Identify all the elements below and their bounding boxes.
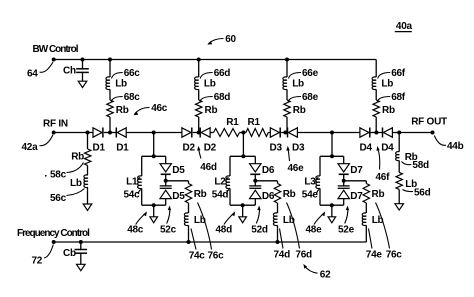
node freq tap 74d — [276, 240, 280, 244]
text R1 first — [226, 117, 239, 128]
node D5 midpoint — [164, 179, 168, 183]
inductor L1 — [138, 176, 142, 189]
svg-text:54d: 54d — [212, 190, 229, 201]
wire D6 mid to Rb — [255, 180, 277, 182]
label 54d — [212, 190, 229, 201]
ground below Ch — [78, 81, 87, 87]
label 72 — [32, 245, 54, 267]
node freq tap 74c — [187, 240, 191, 244]
text Lb (66c) — [115, 78, 127, 89]
wire top rail L2 — [230, 155, 255, 157]
svg-text:62: 62 — [320, 269, 331, 280]
svg-text:Rb: Rb — [372, 189, 385, 200]
label 48c with arrow — [127, 211, 147, 235]
wire term-right middle — [398, 161, 400, 173]
inductor Lb (56c) — [84, 175, 88, 188]
svg-text:Lb: Lb — [115, 78, 127, 89]
resistor Rb (68f) — [373, 100, 379, 117]
node freq line start — [52, 240, 56, 244]
label 66e — [289, 68, 319, 79]
node RF IN — [52, 131, 56, 135]
node D4 center — [374, 131, 378, 135]
wire D3 center — [281, 132, 287, 134]
label 56c — [50, 189, 85, 204]
label 40a — [395, 21, 413, 32]
node D2 center — [197, 131, 201, 135]
svg-text:Lb: Lb — [381, 78, 393, 89]
wire feed L3 — [331, 133, 333, 157]
wire D5 mid upper — [165, 174, 167, 186]
wire 74c lower — [188, 225, 190, 242]
diode D4 left — [360, 128, 370, 138]
svg-text:Rb: Rb — [283, 189, 296, 200]
wire 74e lower — [365, 225, 367, 242]
inductor Lb (66c) — [106, 77, 110, 90]
svg-text:D2: D2 — [204, 143, 217, 154]
svg-text:Rb: Rb — [71, 152, 84, 163]
svg-text:40a: 40a — [396, 21, 413, 32]
svg-text:L3: L3 — [304, 177, 316, 188]
label 60 with arrow — [207, 34, 236, 45]
resistor Rb (58c) — [85, 149, 91, 166]
svg-text:Cb: Cb — [63, 248, 76, 259]
text D7 upper — [350, 165, 363, 176]
svg-text:60: 60 — [225, 34, 236, 45]
wire branch 66d middle — [198, 89, 200, 100]
svg-text:Rb: Rb — [382, 105, 395, 116]
label 54c — [124, 190, 141, 201]
svg-text:74e: 74e — [366, 249, 383, 260]
capacitor Ch — [76, 69, 89, 73]
label 76c — [198, 203, 225, 262]
svg-text:76d: 76d — [295, 249, 312, 260]
resistor Rb (68e) — [284, 100, 290, 117]
wire D7 mid to Rb — [344, 180, 367, 182]
wire branch 66f middle — [375, 89, 377, 100]
inductor Lb (66d) — [195, 77, 199, 90]
label 58d — [402, 160, 430, 171]
svg-text:BW Control: BW Control — [33, 44, 79, 55]
svg-text:52d: 52d — [251, 225, 268, 236]
node RF termination left — [86, 131, 90, 135]
svg-text:58d: 58d — [412, 160, 429, 171]
diode D3 right — [288, 128, 298, 138]
svg-text:RF IN: RF IN — [43, 119, 68, 130]
svg-text:R1: R1 — [226, 117, 239, 128]
wire term-right upper — [398, 133, 400, 152]
svg-text:66e: 66e — [302, 68, 319, 79]
text D6 upper — [262, 165, 275, 176]
label 76d — [287, 203, 313, 261]
svg-text:48c: 48c — [127, 225, 144, 236]
label 52d with arrow — [251, 206, 268, 236]
wire R1 junction — [240, 132, 246, 134]
label 46f with arrow — [376, 146, 391, 183]
wire term-left upper — [87, 133, 89, 150]
wire ground stub L3 — [331, 205, 333, 217]
inductor Lb (76c) — [184, 213, 188, 226]
resistor Rb (68c) — [107, 100, 113, 117]
node D3 center — [284, 131, 288, 135]
diode D2 right — [200, 128, 210, 138]
label 68c — [111, 92, 140, 103]
node resonator-c feed — [152, 131, 156, 135]
text Rb (58c) — [71, 152, 84, 163]
wire D7 branch upper — [343, 156, 345, 163]
ground term-left — [83, 204, 92, 210]
wire RF line seg1 — [54, 132, 93, 134]
svg-text:48e: 48e — [306, 225, 323, 236]
wire ground stub L1 — [153, 205, 155, 217]
label 54e — [302, 190, 319, 201]
wire Ch top lead — [82, 60, 84, 69]
ground resonator L1 — [150, 217, 158, 223]
text Lb (76c) — [194, 215, 206, 226]
inductor coil (Rb 58d) — [396, 152, 400, 161]
svg-text:Lb: Lb — [70, 178, 82, 189]
node ground stub L2 — [241, 203, 245, 207]
wire feed L2 — [242, 133, 244, 157]
svg-text:D3: D3 — [270, 143, 283, 154]
node rail L2 — [241, 154, 245, 158]
label 76c (second) — [376, 203, 403, 261]
svg-text:72: 72 — [32, 255, 43, 266]
label 66c — [112, 68, 141, 79]
text Rb (74e) — [372, 189, 385, 200]
text Ch — [63, 66, 76, 77]
text Lb (56d) — [405, 179, 417, 190]
wire branch 66f upper — [375, 60, 377, 78]
label 56d — [403, 187, 431, 198]
wire D7 mid upper — [343, 174, 345, 186]
wire Rb-Lb 74d — [277, 203, 279, 213]
wire L1 branch lower — [141, 188, 143, 205]
text Lb (66d) — [204, 78, 216, 89]
text L1 — [126, 177, 140, 188]
text D3 left — [270, 143, 283, 154]
text D5 lower — [172, 191, 185, 202]
node BW line start — [52, 58, 56, 62]
diode D7 upper — [338, 164, 349, 175]
svg-text:76c: 76c — [208, 251, 225, 262]
text D5 upper — [172, 165, 185, 176]
svg-text:Frequency Control: Frequency Control — [17, 228, 90, 239]
text D2 right — [204, 143, 217, 154]
resistor Lb-labeled (56d) — [396, 172, 402, 189]
wire L1 branch upper — [141, 156, 143, 176]
wire RF seg2 — [126, 132, 182, 134]
svg-text:D7: D7 — [350, 165, 363, 176]
inductor Lb (66f) — [372, 77, 376, 90]
wire Cb bottom lead — [80, 253, 82, 264]
label 46c with arrow — [133, 103, 168, 115]
svg-text:D4: D4 — [360, 143, 373, 154]
node ground stub L3 — [330, 203, 334, 207]
node top branch 66d — [197, 58, 201, 62]
svg-text:D5: D5 — [172, 191, 185, 202]
node rail L1 — [152, 154, 156, 158]
svg-text:Ch: Ch — [63, 66, 76, 77]
wire D7 branch lower — [343, 199, 345, 206]
wire branch 66f lower — [375, 117, 377, 133]
wire 74d lower — [277, 225, 279, 242]
text Cb — [63, 248, 76, 259]
text Rb (74c) — [194, 189, 207, 200]
text RF IN — [43, 119, 68, 130]
svg-text:D1: D1 — [116, 143, 129, 154]
wire bottom rail L2 — [230, 204, 255, 206]
wire L2 branch lower — [229, 188, 231, 205]
svg-text:54c: 54c — [124, 190, 141, 201]
svg-text:Lb: Lb — [292, 78, 304, 89]
label 52e with arrow — [338, 206, 355, 236]
svg-text:68f: 68f — [391, 92, 406, 103]
text Rb (74d) — [283, 189, 296, 200]
wire Ch bottom lead — [82, 72, 84, 81]
wire branch 66e middle — [286, 89, 288, 100]
wire D4 center — [370, 132, 383, 134]
label 74d — [274, 229, 291, 261]
svg-text:42a: 42a — [22, 142, 39, 153]
wire Rb 74c upper — [188, 181, 190, 184]
svg-text:44b: 44b — [447, 141, 464, 152]
wire D6 branch upper — [254, 156, 256, 163]
svg-text:48d: 48d — [216, 225, 233, 236]
wire Rb 74e upper — [365, 181, 367, 184]
text R1 second — [248, 117, 261, 128]
wire branch 66c middle — [109, 89, 111, 100]
wire branch 66d lower — [198, 117, 200, 133]
resistor R1 first — [214, 129, 240, 137]
svg-text:58c: 58c — [50, 170, 67, 181]
text Rb (68d) — [205, 105, 218, 116]
resistor R1 second — [246, 129, 268, 137]
wire D2 center — [193, 132, 200, 134]
svg-text:52c: 52c — [160, 225, 177, 236]
wire Rb-Lb 74c — [188, 203, 190, 213]
label 68e — [288, 92, 319, 103]
ground resonator L3 — [328, 217, 336, 223]
node top branch 66e — [285, 58, 289, 62]
wire D5 branch upper — [165, 156, 167, 163]
node RF termination right — [397, 131, 401, 135]
diode D2 left — [182, 128, 192, 138]
label 64 — [27, 62, 53, 80]
wire branch 66e upper — [286, 60, 288, 78]
label 74e — [366, 229, 383, 261]
label 58c — [45, 163, 84, 181]
diode D3 left — [270, 128, 280, 138]
svg-text:Rb: Rb — [205, 105, 218, 116]
text Lb (56c) — [70, 178, 82, 189]
wire branch 66c lower — [109, 117, 111, 133]
label 68f — [377, 92, 406, 103]
wire L3 branch upper — [319, 156, 321, 176]
svg-text:Lb: Lb — [204, 78, 216, 89]
svg-text:Lb: Lb — [372, 215, 384, 226]
wire Cb top lead — [80, 242, 82, 250]
diode D1 right — [116, 128, 126, 138]
svg-text:76c: 76c — [386, 249, 403, 260]
text Rb (68f) — [382, 105, 395, 116]
svg-text:D6: D6 — [262, 165, 275, 176]
node D1 center — [108, 131, 112, 135]
svg-text:Rb: Rb — [194, 189, 207, 200]
wire term-left middle — [87, 166, 89, 176]
svg-text:68c: 68c — [124, 92, 141, 103]
label 46e with arrow — [286, 146, 304, 174]
label 68d — [200, 92, 231, 103]
svg-text:52e: 52e — [338, 225, 355, 236]
wire D5 branch lower — [165, 199, 167, 206]
text BW Control — [33, 44, 79, 55]
wire branch 66c upper — [109, 60, 111, 78]
wire term-left lower — [87, 187, 89, 204]
text D3 right — [292, 143, 305, 154]
label 46d with arrow — [197, 146, 217, 173]
node ground stub L1 — [152, 203, 156, 207]
label 48d with arrow — [216, 211, 236, 235]
svg-text:D4: D4 — [381, 143, 394, 154]
wire RF seg4 — [268, 132, 270, 134]
wire Rb-Lb 74e — [365, 203, 367, 213]
wire top rail L1 — [142, 155, 166, 157]
svg-text:D3: D3 — [292, 143, 305, 154]
text D7 lower — [350, 191, 363, 202]
node RF OUT — [431, 131, 435, 135]
node top branch 66c — [108, 58, 112, 62]
svg-text:74d: 74d — [274, 249, 291, 260]
node resonator-d feed — [241, 131, 245, 135]
ground term-right — [395, 204, 404, 210]
inductor Lb (76c) — [362, 213, 366, 226]
wire branch 66d upper — [198, 60, 200, 78]
text D4 left — [360, 143, 373, 154]
text D1 left — [93, 143, 106, 154]
label 44b — [434, 136, 463, 153]
inductor Lb (76d) — [273, 213, 277, 226]
wire ground stub L2 — [242, 205, 244, 217]
label 52c with arrow — [160, 206, 177, 236]
ground below Cb — [77, 264, 86, 270]
node Ch tap — [81, 58, 85, 62]
svg-text:56d: 56d — [414, 187, 431, 198]
wire D6 mid upper — [254, 174, 256, 186]
svg-text:66f: 66f — [391, 68, 406, 79]
diode D5 upper — [160, 164, 171, 175]
label 62 with arrow — [303, 264, 331, 281]
text Frequency Control — [17, 228, 90, 239]
text Lb (66f) — [381, 78, 393, 89]
resistor Rb (68d) — [196, 100, 202, 117]
wire L2 branch upper — [229, 156, 231, 176]
label 66d — [200, 68, 230, 79]
node resonator-e feed — [330, 131, 334, 135]
svg-text:D6: D6 — [262, 191, 275, 202]
text Rb (68e) — [293, 105, 306, 116]
svg-text:D2: D2 — [183, 143, 196, 154]
svg-text:Rb: Rb — [116, 105, 129, 116]
wire term-right lower — [398, 189, 400, 203]
text D4 right — [381, 143, 394, 154]
capacitor Cb — [75, 250, 88, 254]
node D7 midpoint — [342, 179, 346, 183]
diode D5 lower — [160, 186, 172, 199]
label 42a — [22, 135, 54, 153]
wire feed L1 — [153, 133, 155, 157]
wire RF seg6 — [392, 132, 432, 134]
text Rb (58d) — [405, 152, 418, 163]
text Lb (66e) — [292, 78, 304, 89]
diode D1 left — [93, 128, 103, 138]
inductor L2 — [226, 176, 230, 189]
svg-text:46e: 46e — [288, 163, 305, 174]
node rail L3 — [330, 154, 334, 158]
wire Frequency Control bus — [54, 241, 367, 243]
resistor Rb (74d) — [274, 184, 280, 204]
inductor L3 — [316, 176, 320, 189]
wire L3 branch lower — [319, 188, 321, 205]
wire RF seg5 — [297, 132, 360, 134]
svg-text:D7: D7 — [350, 191, 363, 202]
text Lb (76c) — [372, 215, 384, 226]
wire RF seg3 — [210, 132, 213, 134]
svg-text:46f: 46f — [376, 172, 391, 183]
wire Rb 74d upper — [277, 181, 279, 184]
svg-text:46c: 46c — [151, 103, 168, 114]
diode D7 lower — [338, 186, 350, 199]
svg-text:56c: 56c — [50, 193, 67, 204]
label 74c — [189, 229, 206, 262]
wire branch 66e lower — [286, 117, 288, 133]
svg-text:D1: D1 — [93, 143, 106, 154]
svg-text:68e: 68e — [302, 92, 319, 103]
svg-text:54e: 54e — [302, 190, 319, 201]
svg-text:74c: 74c — [189, 251, 206, 262]
text RF OUT — [411, 117, 447, 128]
resistor Rb (74c) — [185, 184, 191, 204]
label 48e with arrow — [306, 211, 326, 235]
text D2 left — [183, 143, 196, 154]
svg-text:L2: L2 — [214, 177, 226, 188]
svg-text:46d: 46d — [200, 162, 217, 173]
wire bottom rail L1 — [142, 204, 166, 206]
svg-text:L1: L1 — [126, 177, 138, 188]
text Lb (76d) — [283, 215, 295, 226]
wire D6 branch lower — [254, 199, 256, 206]
svg-text:Rb: Rb — [293, 105, 306, 116]
diode D4 right — [383, 128, 393, 138]
text Rb (68c) — [116, 105, 129, 116]
wire D1 center — [104, 132, 116, 134]
svg-text:R1: R1 — [248, 117, 261, 128]
diode D6 lower — [249, 186, 261, 199]
ground resonator L2 — [239, 217, 247, 223]
node Cb tap — [79, 240, 83, 244]
inductor Lb (66e) — [283, 77, 287, 90]
text D1 right — [116, 143, 129, 154]
wire D5 mid to Rb — [166, 180, 189, 182]
svg-text:D5: D5 — [172, 165, 185, 176]
text L3 — [304, 177, 318, 188]
wire BW Control bus — [54, 59, 377, 61]
svg-text:66d: 66d — [214, 68, 231, 79]
wire top rail L3 — [320, 155, 344, 157]
text L2 — [214, 177, 228, 188]
diode D6 upper — [250, 164, 261, 175]
node D6 midpoint — [253, 179, 257, 183]
label 66f — [378, 68, 406, 79]
